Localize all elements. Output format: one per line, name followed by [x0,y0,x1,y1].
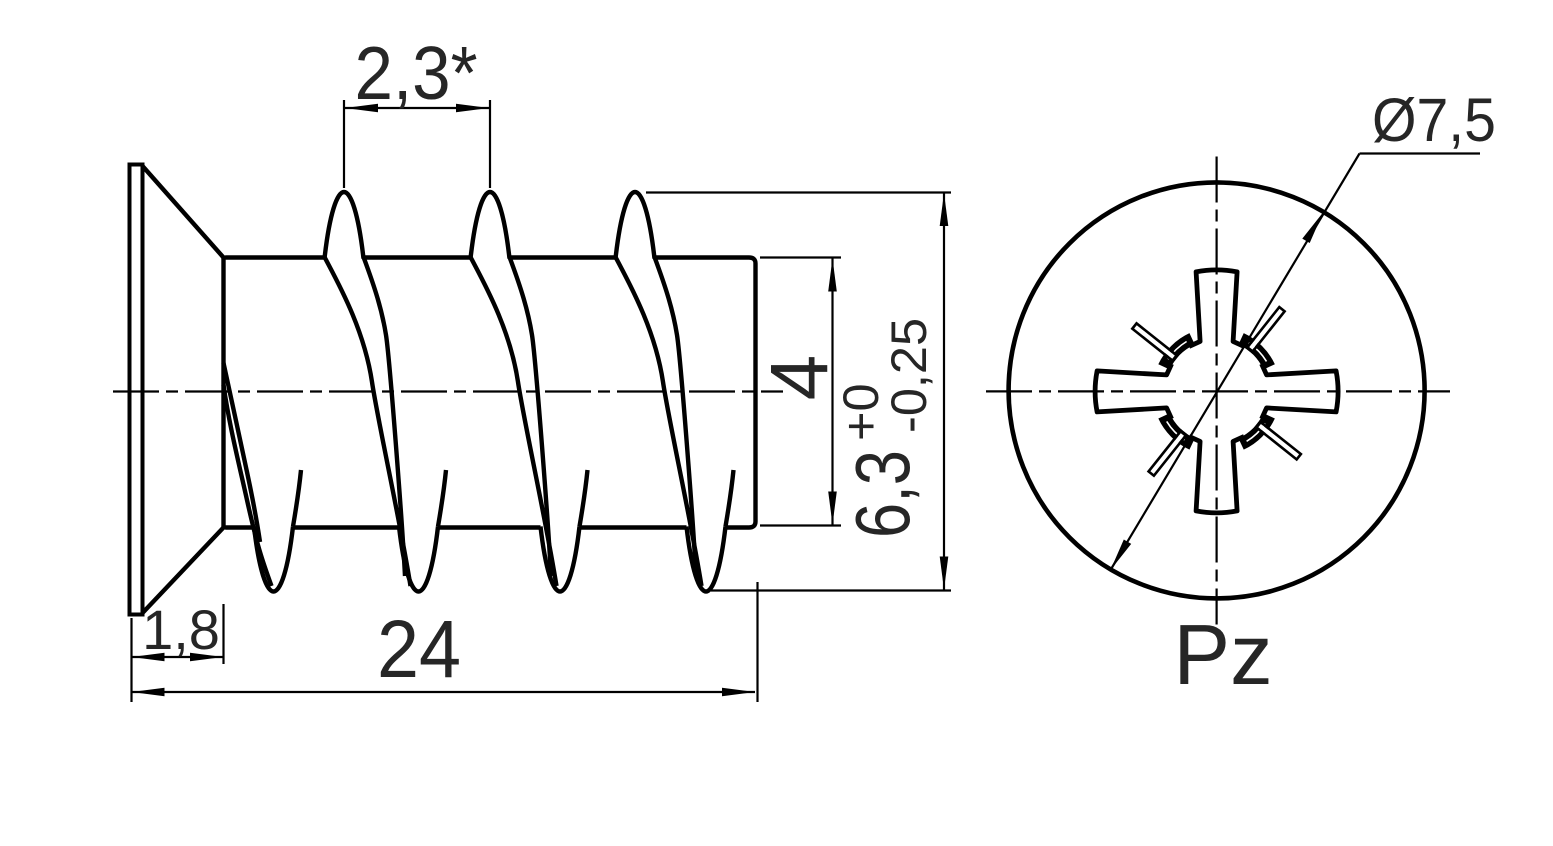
svg-text:1,8: 1,8 [142,598,220,661]
svg-text:-0,25: -0,25 [880,318,937,433]
svg-text:2,3*: 2,3* [355,31,478,115]
svg-text:6,3: 6,3 [841,450,927,538]
svg-text:Ø7,5: Ø7,5 [1372,86,1496,154]
svg-text:Pz: Pz [1173,608,1272,703]
svg-text:24: 24 [377,604,461,695]
